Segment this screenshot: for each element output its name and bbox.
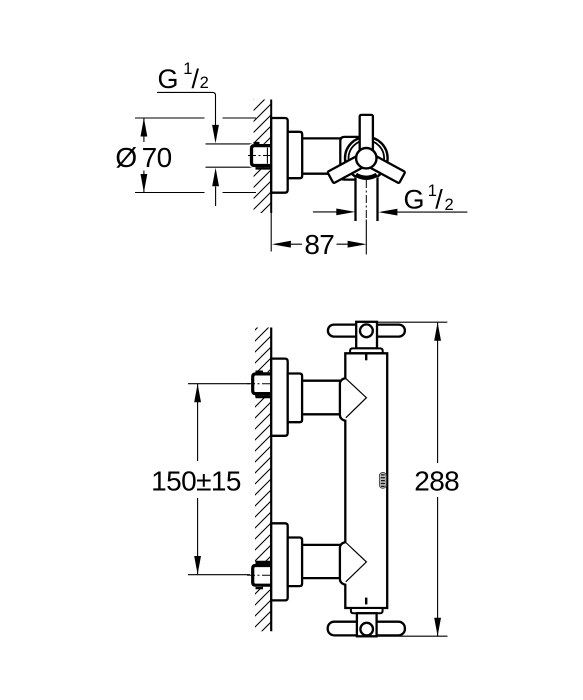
top handle bar	[328, 325, 405, 337]
dimension 288 extension lines	[377, 322, 448, 636]
svg-text:/: /	[435, 185, 443, 215]
union nut lower	[247, 561, 273, 589]
wire: wall extension for 87 dim	[270, 213, 272, 252]
inlet pipe lower	[302, 545, 340, 578]
escutcheon flange lower	[271, 523, 288, 600]
svg-text:G: G	[404, 185, 425, 215]
svg-text:Ø 70: Ø 70	[115, 142, 171, 173]
svg-text:288: 288	[414, 465, 459, 496]
bottom handle hub block	[357, 613, 377, 636]
svg-text:/: /	[192, 64, 200, 94]
svg-text:87: 87	[304, 229, 334, 260]
index tick top	[365, 354, 367, 361]
wall hatching (bottom view)	[250, 309, 276, 654]
union nut upper	[247, 371, 273, 399]
150 dim extension line upper	[188, 383, 250, 385]
wall line (top view)	[270, 100, 272, 214]
connection tube (top view)	[302, 138, 341, 173]
dimension Ø70 extension lines	[135, 118, 256, 193]
top collar	[350, 348, 383, 353]
dimension Ø70 line + arrows	[143, 118, 145, 193]
bottom handle front spoke circle	[360, 623, 373, 636]
bottom handle bar	[328, 622, 405, 636]
check valve cone lower	[346, 543, 367, 582]
GROHE logo badge	[379, 473, 386, 489]
top handle hub block	[356, 322, 377, 349]
witness stubs at nipple	[206, 144, 252, 167]
threaded nipple G1/2 (top view)	[248, 142, 273, 170]
bottom collar	[351, 608, 383, 613]
svg-text:2: 2	[200, 74, 209, 92]
handle escutcheon inner ring	[349, 140, 385, 176]
handle escutcheon outer circle	[345, 137, 388, 180]
leader for top G1/2	[157, 92, 216, 126]
escutcheon flange (top view)	[271, 118, 288, 193]
svg-text:2: 2	[445, 196, 454, 214]
cross handle spokes (3x)	[327, 115, 405, 183]
dimension 150±15 line + arrows	[197, 384, 199, 575]
dimension 288 line + arrows	[437, 322, 439, 636]
outlet pipe below handle	[356, 172, 378, 221]
outlet centerline	[365, 180, 367, 220]
check valve cone upper	[346, 379, 367, 418]
arrow to nipple bottom	[215, 187, 217, 207]
right G1/2 small arrow	[313, 211, 337, 213]
escutcheon step upper	[288, 374, 302, 423]
top handle front spoke circle	[360, 324, 373, 337]
index tick bottom	[365, 598, 367, 605]
escutcheon step lower	[288, 538, 302, 587]
150 dim extension line lower	[188, 574, 250, 576]
svg-text:G: G	[158, 64, 179, 94]
valve body behind handle	[340, 137, 366, 180]
right G1/2 leader	[397, 211, 467, 213]
dimension 87 line + arrows	[291, 243, 348, 245]
handle hub circle	[356, 148, 376, 168]
wall line (bottom view)	[270, 328, 272, 632]
inlet pipe upper	[302, 381, 340, 415]
svg-text:150±15: 150±15	[151, 466, 241, 497]
thick arc under escutcheon	[356, 175, 377, 178]
thermostat main body	[340, 353, 387, 608]
escutcheon flange upper	[271, 359, 288, 436]
wall hatching (top view)	[248, 77, 276, 237]
escutcheon step (top view)	[288, 132, 303, 178]
